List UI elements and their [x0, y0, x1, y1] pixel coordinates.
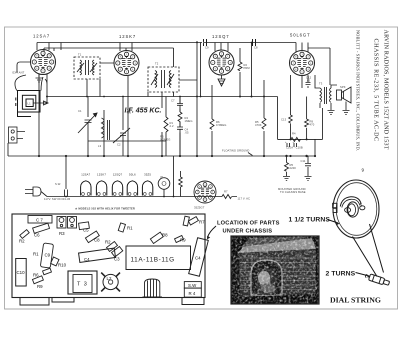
svg-text:C1: C1 [78, 109, 82, 113]
svg-text:C10A · C10B: C10A · C10B [286, 146, 303, 150]
svg-text:C8: C8 [254, 46, 258, 50]
svg-text:EXT ANT: EXT ANT [13, 71, 25, 75]
svg-text:R9: R9 [37, 284, 43, 289]
svg-text:R10: R10 [58, 263, 67, 268]
svg-text:R2: R2 [19, 239, 25, 244]
svg-text:UNDER CHASSIS: UNDER CHASSIS [223, 229, 273, 235]
svg-text:C9: C9 [45, 253, 51, 258]
svg-text:12SQ7: 12SQ7 [212, 34, 230, 39]
svg-text:50L6: 50L6 [129, 173, 136, 177]
svg-text:FLOATING GROUND: FLOATING GROUND [222, 149, 249, 153]
svg-text:C4: C4 [195, 256, 201, 261]
svg-text:117 V. AC: 117 V. AC [238, 197, 251, 201]
svg-text:C9: C9 [205, 46, 209, 50]
svg-text:R2: R2 [105, 240, 111, 245]
svg-text:T2: T2 [155, 62, 159, 66]
svg-text:35Z5: 35Z5 [144, 173, 151, 177]
svg-text:L1: L1 [28, 101, 32, 105]
svg-text:R1: R1 [33, 252, 39, 257]
svg-text:CHASSIS RE-233, 5 TUBE AC-DC: CHASSIS RE-233, 5 TUBE AC-DC [372, 39, 378, 142]
svg-text:TO CHASSIS BASE: TO CHASSIS BASE [280, 190, 306, 194]
svg-text:12SA7: 12SA7 [33, 34, 50, 39]
svg-text:★ MODELS 552 WITH HELIX FOR TW: ★ MODELS 552 WITH HELIX FOR TWEETER [75, 206, 135, 210]
svg-text:12SK7: 12SK7 [119, 34, 136, 39]
svg-text:R4: R4 [292, 132, 296, 136]
svg-text:L3: L3 [98, 144, 102, 148]
svg-text:L2: L2 [107, 276, 112, 281]
svg-text:C 7: C 7 [36, 218, 43, 223]
svg-text:12SK7: 12SK7 [97, 173, 106, 177]
svg-text:12SA7: 12SA7 [81, 173, 90, 177]
svg-text:50L6GT: 50L6GT [290, 33, 311, 38]
svg-text:T 3: T 3 [77, 282, 88, 288]
svg-text:C5: C5 [83, 228, 89, 233]
svg-text:11A-11B-11G: 11A-11B-11G [131, 257, 175, 264]
svg-text:35Z5GT: 35Z5GT [194, 206, 205, 210]
svg-text:C10: C10 [17, 270, 26, 275]
svg-text:T3: T3 [319, 82, 323, 86]
svg-text:1 1/2 TURNS: 1 1/2 TURNS [289, 217, 331, 224]
svg-text:T1: T1 [78, 53, 82, 57]
svg-text:C7: C7 [171, 99, 175, 103]
svg-text:LOCATION OF PARTS: LOCATION OF PARTS [217, 221, 280, 227]
svg-text:S.W: S.W [188, 283, 197, 288]
svg-text:2 TURNS: 2 TURNS [326, 271, 356, 278]
svg-text:S.W.: S.W. [55, 182, 61, 186]
svg-text:117V. SW ON R4-36: 117V. SW ON R4-36 [44, 197, 71, 201]
svg-text:R1: R1 [127, 226, 133, 231]
svg-text:R8: R8 [162, 233, 168, 238]
svg-text:ARVIN RADIOS, MODELS 152T AND: ARVIN RADIOS, MODELS 152T AND 153T [382, 30, 388, 150]
svg-text:C4: C4 [84, 257, 90, 262]
svg-text:DIAL STRING: DIAL STRING [330, 296, 381, 305]
svg-text:SPK: SPK [340, 85, 346, 89]
svg-text:I.F. 455 KC.: I.F. 455 KC. [125, 108, 162, 115]
svg-text:R7: R7 [199, 220, 205, 225]
svg-text:C13: C13 [281, 118, 287, 122]
svg-text:C8: C8 [94, 238, 100, 243]
svg-text:R9: R9 [180, 238, 186, 243]
svg-text:R3: R3 [59, 231, 65, 236]
svg-text:C2: C2 [117, 143, 121, 147]
svg-text:R7: R7 [224, 190, 228, 194]
svg-text:C6: C6 [34, 233, 40, 238]
svg-text:C11: C11 [301, 159, 306, 163]
svg-text:PL: PL [161, 175, 165, 179]
svg-text:12SQ7: 12SQ7 [113, 173, 123, 177]
svg-text:R 4: R 4 [189, 291, 196, 296]
